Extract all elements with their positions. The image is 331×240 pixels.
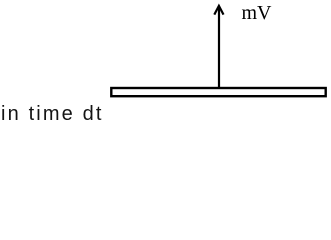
label: in time dt bbox=[1, 104, 104, 124]
bar: horizontal rectangle bbox=[111, 88, 325, 96]
arrowhead (up) bbox=[214, 6, 223, 15]
label mV bbox=[242, 3, 272, 23]
wire: vertical arrow shaft (mV axis) bbox=[218, 7, 220, 90]
